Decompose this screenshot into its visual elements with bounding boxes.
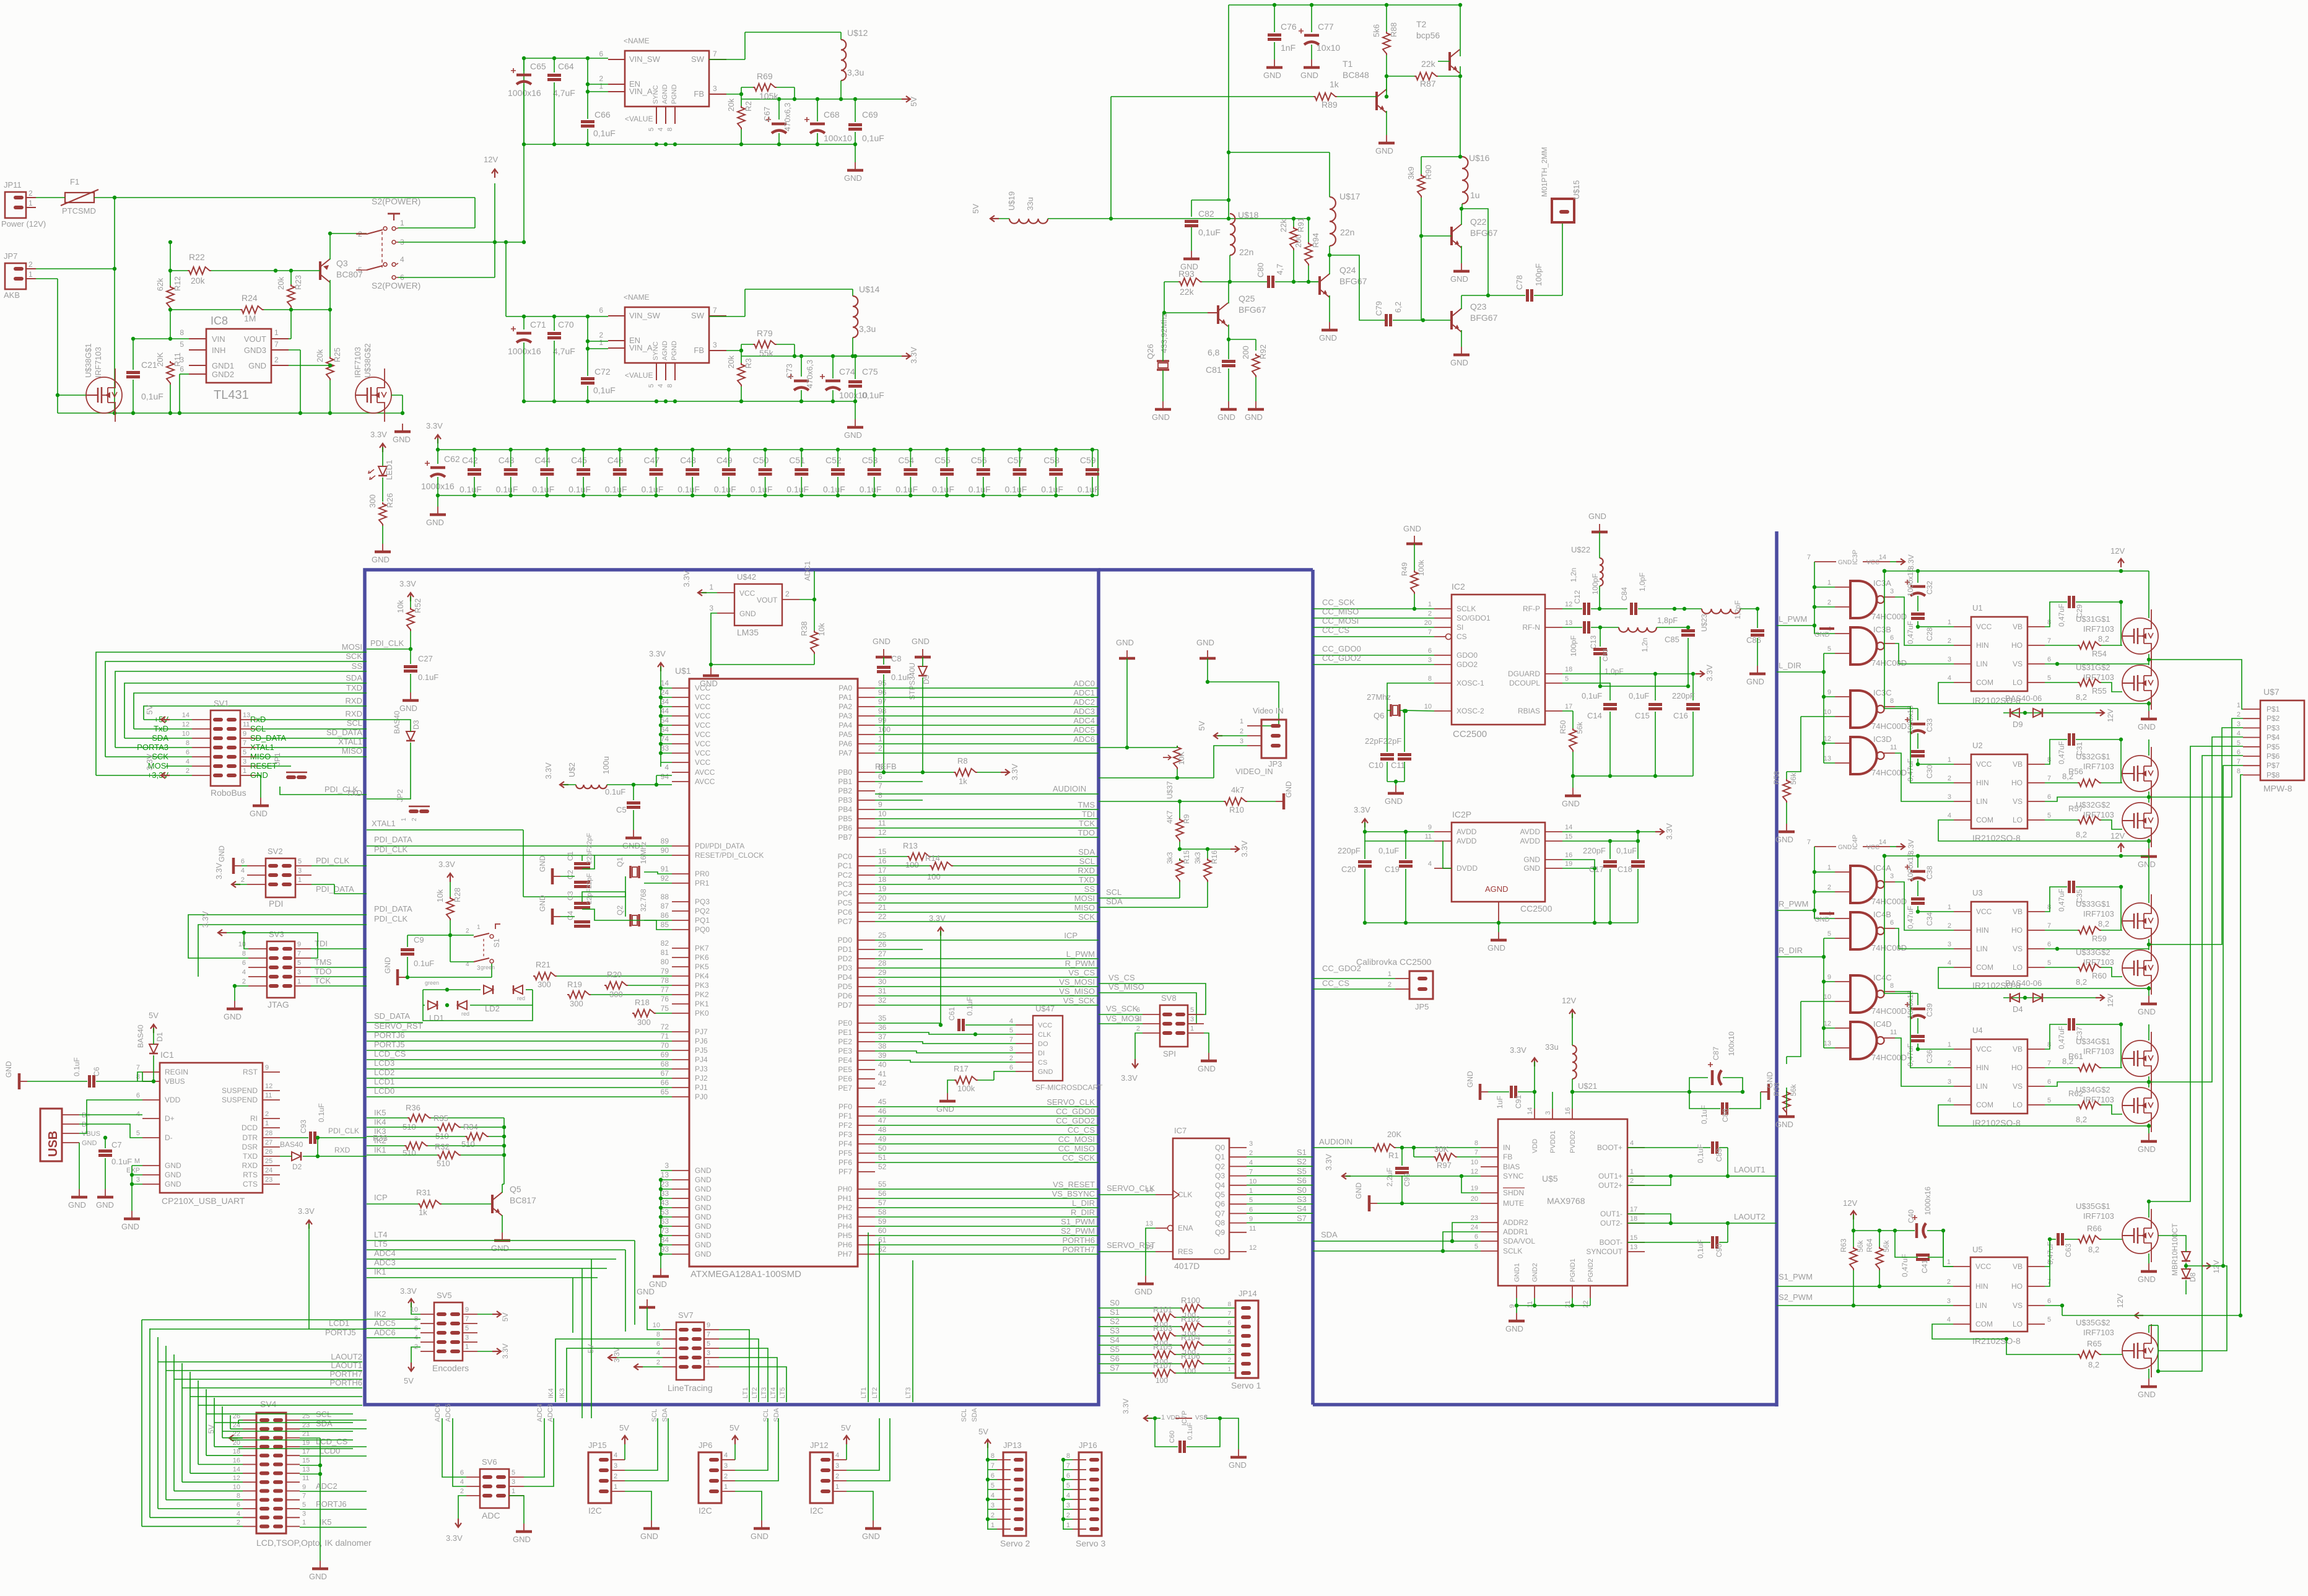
svg-text:74HC00D: 74HC00D [1871,722,1907,731]
svg-text:8,2: 8,2 [2076,977,2087,987]
svg-text:R35: R35 [433,1114,448,1123]
svg-text:75: 75 [661,1004,669,1013]
svg-text:SV6: SV6 [482,1457,497,1467]
svg-text:IC3C: IC3C [1873,688,1892,697]
svg-text:2: 2 [460,1488,464,1495]
svg-text:100u: 100u [601,756,611,774]
svg-text:VS_SCK: VS_SCK [1106,1004,1138,1013]
svg-text:R97: R97 [1437,1161,1452,1170]
svg-text:16: 16 [878,857,887,865]
svg-text:R16: R16 [1210,850,1219,864]
wires OUT2 LAOUT2 [1627,1212,1777,1225]
svg-text:10: 10 [1424,703,1432,710]
svg-text:LAOUT1: LAOUT1 [1734,1165,1766,1174]
svg-text:JP1: JP1 [273,752,282,765]
svg-text:I2C: I2C [810,1506,824,1515]
svg-text:GND: GND [912,637,930,646]
svg-text:PD0: PD0 [838,936,853,944]
svg-text:C5: C5 [616,805,627,814]
svg-text:U$14: U$14 [859,284,880,294]
svg-text:GND: GND [1450,358,1468,367]
svg-text:CC_CS: CC_CS [1322,979,1349,988]
resistor R94 200 [1294,217,1320,284]
svg-text:SCK: SCK [1078,912,1095,922]
svg-text:59: 59 [878,1217,887,1226]
supply 3.3V arrow reg2 [902,347,918,364]
svg-text:3: 3 [1890,588,1894,595]
svg-text:S6: S6 [1110,1354,1120,1363]
supply 3.3V R28 [438,860,455,882]
svg-text:3: 3 [297,969,301,976]
svg-text:GND: GND [309,1572,327,1581]
ground symbol regulator2 [844,401,863,440]
svg-text:12V: 12V [2106,994,2115,1007]
svg-text:5: 5 [297,959,301,967]
svg-text:12: 12 [1249,1244,1256,1252]
svg-text:10k: 10k [435,889,445,902]
svg-text:PF5: PF5 [838,1149,852,1158]
svg-text:PD5: PD5 [838,982,853,991]
svg-text:IC3B: IC3B [1873,625,1891,634]
svg-text:IK4: IK4 [547,1388,555,1398]
svg-text:GND: GND [248,361,266,370]
svg-text:C56: C56 [971,455,987,465]
svg-text:2: 2 [1948,775,1951,782]
svg-text:PH7: PH7 [838,1250,853,1258]
svg-text:RESET/PDI_CLOCK: RESET/PDI_CLOCK [695,851,764,860]
svg-text:VCC: VCC [695,693,711,702]
switch S1 [450,924,501,972]
svg-text:JP16: JP16 [1079,1441,1097,1450]
svg-text:0,47uF: 0,47uF [2046,1242,2055,1265]
svg-text:1: 1 [1630,1168,1634,1175]
capacitor C80 4,7 [1256,263,1320,288]
svg-text:SS: SS [352,661,363,671]
svg-text:26: 26 [878,940,887,949]
svg-text:C78: C78 [1515,275,1524,290]
svg-text:GND: GND [372,555,390,564]
label REFB and resistor R8 1k [875,756,1019,786]
svg-text:ICP: ICP [1064,931,1078,940]
svg-text:1000x16: 1000x16 [1906,568,1915,596]
svg-text:PE5: PE5 [838,1065,852,1074]
svg-text:PR1: PR1 [695,879,710,887]
capacitor C89 0,1uF [1696,1141,1730,1178]
svg-text:60: 60 [878,1226,887,1235]
svg-text:1k: 1k [419,1208,427,1217]
svg-text:HO: HO [2011,1063,2023,1072]
svg-text:1,8pF: 1,8pF [1657,616,1678,625]
svg-text:GND: GND [695,1231,712,1240]
svg-text:BC817: BC817 [510,1195,536,1205]
svg-text:13: 13 [661,1171,669,1179]
connector JP7 [4,251,36,300]
inductor U$22 1,2n [1569,512,1608,609]
svg-text:7: 7 [2047,922,2051,930]
svg-text:4k7: 4k7 [1231,785,1244,795]
MCU left pins [661,679,764,1258]
svg-text:7: 7 [274,340,279,349]
svg-text:14: 14 [1526,1107,1534,1115]
svg-text:5V: 5V [501,1312,510,1322]
svg-text:green: green [481,964,495,970]
svg-text:220pF: 220pF [1338,846,1361,855]
svg-text:3: 3 [243,758,246,765]
svg-text:21: 21 [1564,1301,1572,1308]
svg-text:SV8: SV8 [1161,993,1177,1003]
svg-text:510: 510 [461,1140,475,1149]
supply 3.3V LM35 [682,570,717,596]
svg-text:JTAG: JTAG [268,1000,289,1009]
capacitor C58 0.1uF [1041,448,1063,497]
svg-text:6,8: 6,8 [1208,347,1220,357]
svg-text:R59: R59 [2092,934,2107,943]
svg-text:7: 7 [1807,554,1811,561]
svg-text:13: 13 [243,712,250,719]
svg-text:PE0: PE0 [838,1019,852,1027]
connector SV5 Encoders [411,1291,477,1373]
svg-text:Q0: Q0 [1215,1143,1225,1152]
jumper JP1 [273,752,367,795]
net labels PH rows [875,1180,1099,1254]
capacitor C19 0,1uF [1378,830,1413,923]
svg-text:1: 1 [400,219,404,227]
svg-text:4: 4 [1227,1338,1231,1345]
ground video divider right [1196,638,1279,726]
svg-text:80: 80 [661,957,669,966]
svg-text:XTAL1: XTAL1 [372,819,396,828]
svg-text:1: 1 [1827,579,1831,587]
svg-text:CC_GDO2: CC_GDO2 [1056,1116,1095,1125]
svg-text:0.1uF: 0.1uF [532,484,554,494]
capacitor C74 100x10 [820,356,868,401]
svg-text:SV5: SV5 [437,1291,452,1300]
ground R10 [1276,781,1293,809]
svg-text:0.1uF: 0.1uF [317,1103,326,1122]
svg-text:PA2: PA2 [838,702,852,711]
LED cluster LD1 LD2 [423,964,533,1023]
svg-text:24: 24 [265,1167,272,1174]
svg-text:SDA: SDA [971,1408,978,1422]
connector SV1 [137,699,286,798]
svg-text:10x10: 10x10 [1317,43,1340,53]
svg-text:BOOT-: BOOT- [1600,1238,1622,1247]
svg-text:SV4: SV4 [260,1399,277,1409]
svg-text:SDA/VOL: SDA/VOL [1503,1237,1535,1245]
svg-text:9: 9 [265,1064,269,1071]
ground C81 [1217,401,1237,422]
svg-text:6: 6 [1428,647,1432,655]
svg-text:S1: S1 [1297,1148,1307,1157]
capacitor C57 0.1uF [1005,448,1027,497]
svg-text:14: 14 [661,679,669,687]
resistor R19 300 [567,980,672,1008]
svg-text:C10: C10 [1369,761,1383,770]
svg-text:IC4P: IC4P [1852,835,1859,850]
svg-text:433,92Mhz: 433,92Mhz [1159,313,1169,353]
svg-text:U$16: U$16 [1469,153,1490,163]
svg-text:ADC0: ADC0 [1073,679,1095,688]
potentiometer U$37 10k [1127,746,1186,799]
svg-text:2: 2 [724,1473,728,1480]
svg-text:IK5: IK5 [374,1108,386,1117]
svg-text:5: 5 [136,1130,140,1137]
svg-text:3.3V: 3.3V [201,911,210,928]
resistor R2 20k [726,92,753,144]
svg-text:4: 4 [186,758,189,765]
svg-text:VCC: VCC [695,758,711,767]
svg-text:RXD: RXD [346,709,362,718]
svg-text:R104: R104 [1181,1333,1200,1342]
svg-text:10k: 10k [396,600,405,613]
svg-text:SCL: SCL [960,1409,968,1422]
svg-text:TCK: TCK [315,976,331,985]
connector U$7 MPW-8 [2237,687,2304,793]
mosfet pair upper [2076,571,2158,710]
svg-text:0,1uF: 0,1uF [593,128,616,138]
svg-text:100k: 100k [1417,559,1426,576]
svg-text:3.3V: 3.3V [1240,840,1249,857]
svg-text:SYNC: SYNC [1503,1172,1524,1180]
svg-text:GND: GND [1245,412,1263,422]
svg-text:C40: C40 [1907,1210,1915,1223]
svg-text:11: 11 [1890,1029,1897,1036]
svg-text:ADC5: ADC5 [374,1319,396,1328]
capacitor C90 0,1uF [1696,1223,1728,1258]
svg-text:DGUARD: DGUARD [1508,669,1540,678]
svg-text:R55: R55 [2092,686,2107,696]
svg-text:HO: HO [2011,641,2023,650]
gate input wires LDIR [1777,938,1835,1057]
svg-text:PK4: PK4 [695,972,709,980]
capacitor C86 1,2pF [1733,600,1764,666]
svg-text:SYNC: SYNC [652,85,660,104]
svg-text:VS_MISO: VS_MISO [1059,987,1095,996]
resistor R97 30K [1414,1145,1481,1170]
svg-text:D+: D+ [165,1114,175,1123]
svg-text:40: 40 [878,1060,887,1069]
svg-text:IRF7103: IRF7103 [2083,810,2114,819]
svg-text:R24: R24 [242,293,258,303]
svg-text:<VALUE: <VALUE [625,115,653,123]
svg-text:4: 4 [1948,959,1951,967]
svg-text:11: 11 [878,819,886,827]
svg-text:IRF7103: IRF7103 [2083,1047,2114,1056]
svg-text:PJ5: PJ5 [695,1046,708,1055]
connector SV2 PDI [241,847,311,909]
svg-text:14: 14 [233,1466,240,1473]
svg-text:6,2: 6,2 [1393,302,1403,313]
svg-text:3.3V: 3.3V [1121,1398,1130,1414]
svg-text:Q26: Q26 [1146,344,1155,359]
svg-text:AKB: AKB [4,290,20,300]
svg-text:CC2500: CC2500 [1520,904,1552,914]
left net labels PJ [367,1021,672,1097]
svg-text:5V: 5V [145,705,154,715]
svg-text:1: 1 [1161,1414,1165,1421]
transistor T1 BC848 [1343,59,1387,135]
svg-text:3.3V: 3.3V [399,579,416,588]
wire switch outputs 12V [398,183,526,277]
svg-text:17: 17 [302,1448,310,1455]
resistor R9 4k7 [1165,801,1191,851]
svg-text:8: 8 [1066,1452,1070,1460]
svg-text:TL431: TL431 [214,388,249,402]
wire FB reg2 [726,344,753,351]
svg-text:LT2: LT2 [751,1387,759,1398]
IC8 TL431 [180,315,289,402]
motor output wire upper [2149,659,2180,660]
wire EN VIN_A [586,58,608,94]
supply 5V arrow RF [971,204,999,222]
svg-text:BFG67: BFG67 [1339,276,1367,286]
svg-text:CTS: CTS [243,1180,258,1188]
connector JP16 Servo 3 [1061,1441,1106,1548]
svg-text:AVDD: AVDD [1520,837,1541,845]
nested bus verticals [142,1320,238,1527]
svg-text:C61: C61 [947,1007,956,1021]
svg-text:IC2: IC2 [1452,582,1465,591]
svg-text:EXP: EXP [126,1167,140,1174]
svg-text:0,47uF: 0,47uF [2057,604,2066,627]
svg-text:GND: GND [2138,1145,2156,1154]
svg-text:S5: S5 [1297,1166,1307,1175]
resistor R58 56k [1772,771,1798,824]
svg-text:66: 66 [661,1078,669,1087]
wire Q24 collector to C79 [1330,255,1385,320]
svg-text:3.3V: 3.3V [1121,1073,1138,1083]
svg-text:R22: R22 [189,252,205,262]
svg-text:3.3V: 3.3V [1705,665,1714,681]
svg-text:GND: GND [1814,916,1830,923]
gate input wires [1777,562,1835,639]
wire VBUS [137,1072,154,1081]
svg-text:D-: D- [82,1121,89,1128]
svg-text:4,7uF: 4,7uF [553,88,575,98]
svg-text:16: 16 [1564,1107,1572,1115]
svg-text:GND: GND [96,1200,114,1210]
svg-text:5: 5 [1474,1243,1478,1250]
svg-text:PB3: PB3 [838,796,852,805]
capacitor C44 0.1uF [532,448,554,497]
svg-text:PDI/PDI_DATA: PDI/PDI_DATA [695,842,744,850]
svg-text:IC4A: IC4A [1873,863,1891,873]
resistor R87 22k [1385,59,1460,98]
svg-text:GND: GND [1152,412,1170,422]
capacitor C36 0,47uF lower [1906,1037,1954,1067]
capacitor C38 1000x16 [1905,853,1934,896]
svg-text:PK5: PK5 [695,962,709,971]
svg-text:55: 55 [878,1180,887,1188]
capacitor C46 0.1uF [605,448,627,497]
svg-text:PE2: PE2 [838,1037,852,1046]
svg-text:IK1: IK1 [374,1145,386,1154]
svg-text:ADC2: ADC2 [1073,697,1095,707]
svg-text:9: 9 [243,730,246,738]
svg-text:LM35: LM35 [737,627,759,637]
svg-text:VIN: VIN [212,334,225,344]
svg-text:ENA: ENA [1178,1224,1193,1232]
svg-text:1: 1 [28,270,33,279]
svg-text:GND: GND [1198,1064,1216,1073]
svg-text:1000x16: 1000x16 [508,88,541,98]
svg-text:R69: R69 [757,71,773,81]
capacitor C87 100x10 [1689,1031,1743,1092]
svg-text:VCC: VCC [695,721,711,730]
svg-text:U3: U3 [1972,888,1983,897]
inductor U$18 22n [1230,210,1259,257]
svg-text:TMS: TMS [1078,800,1095,809]
IC7 4017D [1146,1126,1257,1271]
diode D5 STPS340U [908,637,931,774]
svg-text:CO: CO [1214,1247,1225,1256]
resistor R89 1k [1111,79,1377,110]
svg-text:6: 6 [460,1469,464,1476]
ground C27 [399,692,419,713]
diode D3 BAS40 [346,709,420,799]
svg-text:3k9: 3k9 [1406,167,1416,180]
svg-text:P$1: P$1 [2267,705,2280,713]
SV3 nets right [311,939,367,986]
svg-text:6: 6 [2047,1297,2051,1305]
svg-text:GND: GND [1523,855,1540,864]
svg-text:R_PWM: R_PWM [1779,899,1808,909]
ground IC2P [1487,932,1507,953]
svg-text:12: 12 [265,1083,272,1090]
svg-text:PD6: PD6 [838,992,853,1000]
svg-text:14: 14 [1565,824,1572,831]
svg-text:SHDN: SHDN [1503,1188,1524,1197]
resistor R63 56k [1839,1231,1865,1306]
svg-text:4: 4 [656,1350,660,1357]
ground mosfet lower [2138,1133,2157,1154]
svg-text:IC4C: IC4C [1873,973,1892,982]
ground amp [1505,1313,1525,1333]
svg-text:3: 3 [713,84,717,93]
svg-text:LIN: LIN [1975,1301,1987,1310]
svg-text:8,2: 8,2 [2076,692,2087,702]
supply 3.3V SV5 [400,1286,420,1314]
svg-text:6: 6 [1249,1206,1253,1213]
wire BOOT+ C89 [1627,1147,1710,1148]
svg-text:C30: C30 [1925,765,1934,778]
mosfet U$35G$1 [2076,1200,2158,1263]
wire IK common vertical [503,1118,505,1184]
svg-text:1,2n: 1,2n [1569,568,1578,582]
capacitor C12 100pF RFP [1562,573,1627,615]
IC2P CC2500 power box [1425,809,1573,923]
svg-text:AVDD: AVDD [1457,827,1477,836]
svg-text:CC_CS: CC_CS [1322,626,1349,635]
svg-text:GND: GND [1487,943,1505,953]
svg-text:5: 5 [648,128,655,131]
wire Q25 emitter node [1229,339,1256,351]
svg-text:P$7: P$7 [2267,761,2280,770]
svg-text:PE6: PE6 [838,1075,852,1083]
svg-text:4: 4 [242,969,246,976]
svg-text:GND1: GND1 [1513,1263,1521,1282]
svg-text:PD3: PD3 [838,964,853,972]
svg-text:GND: GND [1775,1120,1793,1129]
svg-text:3: 3 [1948,656,1951,663]
svg-text:C38: C38 [1925,866,1934,879]
svg-text:C50: C50 [753,455,769,465]
svg-text:4: 4 [657,128,664,131]
svg-text:46: 46 [878,1107,887,1115]
svg-text:PC4: PC4 [838,889,853,898]
MCU GND column [659,1171,672,1268]
svg-text:12: 12 [233,1475,240,1482]
